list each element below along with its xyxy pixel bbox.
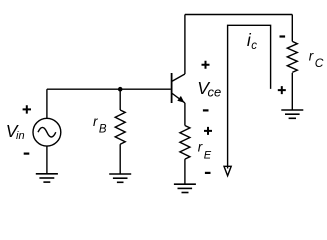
polarity minus Vin	[24, 153, 30, 155]
ground Vin	[36, 174, 58, 182]
svg-text:C: C	[315, 56, 324, 70]
svg-text:c: c	[251, 40, 257, 52]
svg-text:r: r	[198, 140, 203, 155]
svg-text:in: in	[16, 130, 25, 142]
wire rB top lead	[119, 89, 121, 110]
transistor Q1 collector diagonal	[172, 74, 185, 82]
polarity minus Vce	[203, 109, 209, 111]
current ic loop bracket	[228, 25, 271, 168]
polarity plus rC	[278, 86, 286, 94]
ground rE	[174, 184, 196, 192]
svg-text:r: r	[93, 114, 98, 129]
ground rC	[281, 110, 303, 118]
node junction dot	[118, 87, 123, 92]
svg-text:ce: ce	[208, 85, 222, 100]
polarity plus rE	[204, 127, 212, 135]
wire rC top lead	[291, 15, 293, 42]
polarity plus Vce	[202, 61, 210, 69]
wire rE bottom lead	[184, 159, 186, 184]
resistor rC	[287, 41, 297, 72]
polarity plus Vin	[23, 105, 31, 113]
svg-text:B: B	[99, 123, 107, 135]
transistor Q1 emitter diagonal	[172, 93, 185, 103]
transistor Q1 base bar	[171, 73, 173, 103]
svg-text:r: r	[309, 49, 314, 64]
wire rC bottom lead	[291, 73, 293, 110]
wire Vin top lead	[46, 89, 48, 118]
polarity minus rC	[280, 35, 286, 37]
source Vin	[33, 118, 61, 146]
wire Vin bottom lead	[46, 146, 48, 174]
svg-text:E: E	[204, 149, 212, 161]
polarity minus rE	[205, 172, 211, 174]
arrowhead ic (open)	[224, 166, 231, 176]
transistor Q1 emitter arrowhead	[177, 96, 184, 103]
wire base horizontal	[47, 88, 171, 90]
ground rB	[109, 174, 131, 182]
wire rB bottom lead	[119, 144, 121, 174]
resistor rB	[115, 110, 125, 144]
wire emitter vertical	[184, 103, 186, 126]
wire collector vertical	[184, 15, 186, 75]
resistor rE	[180, 126, 190, 160]
wire top (collector to rC)	[185, 14, 292, 16]
